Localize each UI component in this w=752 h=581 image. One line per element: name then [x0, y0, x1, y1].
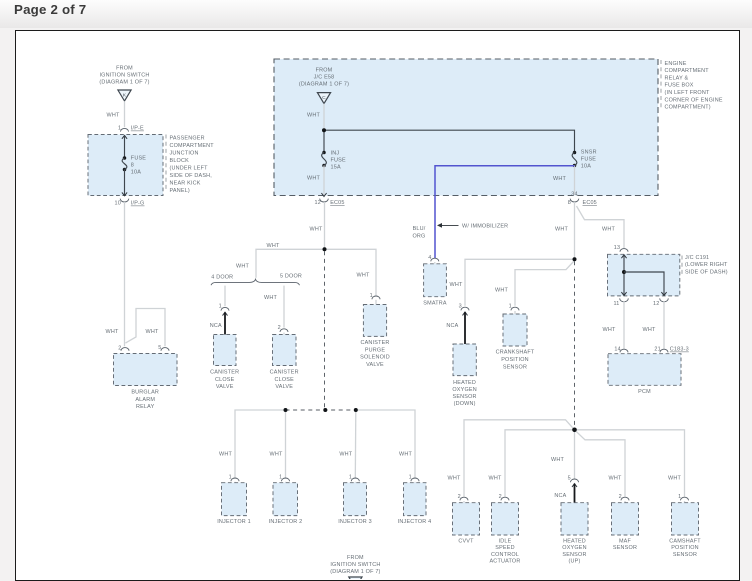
wire WHT EC05-8 down — [555, 202, 574, 259]
svg-text:13: 13 — [614, 245, 620, 251]
svg-text:8: 8 — [568, 200, 571, 206]
wire fuse to exit — [122, 170, 127, 196]
pin 2 MAF sensor — [619, 494, 629, 503]
svg-text:FUSE: FUSE — [331, 157, 346, 163]
svg-text:C: C — [322, 95, 326, 101]
wire SNSR fuse to EC05 pin 34 — [553, 166, 574, 195]
pin 21 PCM and connector C183-3 — [654, 347, 689, 353]
junction connector J/C C191 — [608, 254, 680, 296]
pin 1 canister purge — [370, 293, 380, 305]
source: from ignition switch (diagram 1 of 7) — [99, 65, 149, 85]
svg-text:SENSOR: SENSOR — [453, 394, 477, 400]
wire BLU/ORG SNSR fuse to SMATRA — [413, 166, 575, 258]
wire WHT I/P-G to burglar alarm relay pin 2 — [106, 202, 125, 346]
svg-text:VALVE: VALVE — [275, 384, 293, 390]
svg-text:POSITION: POSITION — [671, 545, 699, 551]
svg-text:WHT: WHT — [307, 175, 320, 181]
svg-text:K: K — [123, 92, 127, 98]
svg-text:INJECTOR 4: INJECTOR 4 — [398, 519, 432, 525]
svg-text:WHT: WHT — [399, 451, 412, 457]
svg-text:HEATED: HEATED — [453, 380, 476, 386]
pin 1 connector I/P-E — [118, 126, 144, 132]
svg-text:ACTUATOR: ACTUATOR — [489, 559, 520, 565]
svg-text:EC05: EC05 — [583, 200, 597, 206]
wire WHT to idle speed control actuator — [489, 430, 575, 497]
wire fuse feed — [124, 135, 126, 158]
svg-text:INJ: INJ — [331, 150, 340, 156]
svg-text:C183-3: C183-3 — [670, 347, 689, 353]
connector triangle bottom (clipped) — [349, 577, 362, 581]
wire WHT branch to pin 5 — [126, 309, 166, 347]
wire WHT to injector 3 — [339, 410, 355, 479]
svg-text:ENGINE: ENGINE — [665, 61, 687, 67]
svg-text:(UP): (UP) — [569, 559, 581, 565]
svg-text:I/P-G: I/P-G — [131, 201, 145, 207]
svg-text:POSITION: POSITION — [501, 357, 529, 363]
svg-text:WHT: WHT — [489, 475, 502, 481]
svg-text:SIDE OF DASH): SIDE OF DASH) — [685, 270, 728, 276]
svg-text:(UNDER LEFT: (UNDER LEFT — [170, 166, 209, 172]
heated oxygen sensor (down) — [452, 344, 476, 407]
svg-text:WHT: WHT — [609, 475, 622, 481]
svg-text:J/C C191: J/C C191 — [685, 255, 709, 261]
pin 1 canister close valve — [219, 304, 229, 311]
wire WHT EC05-12 down — [310, 202, 325, 249]
svg-text:(IN LEFT FRONT: (IN LEFT FRONT — [665, 90, 710, 96]
svg-text:COMPARTMENT: COMPARTMENT — [665, 68, 710, 74]
wire WHT to door-variant brace — [236, 243, 324, 278]
svg-text:BLU/: BLU/ — [413, 226, 426, 232]
svg-text:OXYGEN: OXYGEN — [452, 387, 476, 393]
engine compartment relay and fuse box — [274, 59, 658, 196]
svg-text:PASSENGER: PASSENGER — [170, 136, 205, 142]
svg-text:WHT: WHT — [270, 451, 283, 457]
entry arrow — [122, 135, 127, 138]
svg-text:CRANKSHAFT: CRANKSHAFT — [496, 350, 535, 356]
svg-text:FUSE: FUSE — [581, 157, 596, 163]
engine box caption — [661, 60, 723, 111]
svg-text:FROM: FROM — [316, 68, 333, 74]
canister close valve 1 — [210, 335, 239, 391]
pin 2 — [118, 345, 129, 351]
svg-text:RELAY: RELAY — [136, 404, 155, 410]
svg-text:CANISTER: CANISTER — [360, 340, 389, 346]
svg-text:WHT: WHT — [339, 451, 352, 457]
svg-text:CLOSE: CLOSE — [274, 377, 294, 383]
wire INJ fuse to EC05 pin 12 — [307, 166, 327, 198]
svg-text:ORG: ORG — [413, 233, 426, 239]
svg-text:NCA: NCA — [446, 323, 458, 329]
svg-text:WHT: WHT — [264, 295, 277, 301]
pin 1 injector 2 — [279, 474, 289, 482]
svg-text:(DIAGRAM 1 OF 7): (DIAGRAM 1 OF 7) — [330, 569, 380, 575]
svg-text:WHT: WHT — [555, 226, 568, 232]
svg-text:CANISTER: CANISTER — [270, 369, 299, 375]
svg-text:SENSOR: SENSOR — [562, 552, 586, 558]
svg-text:NCA: NCA — [554, 493, 566, 499]
svg-text:12: 12 — [315, 200, 321, 206]
svg-text:WHT: WHT — [603, 327, 616, 333]
pin 2 CVVT — [458, 494, 468, 503]
svg-text:SIDE OF DASH,: SIDE OF DASH, — [170, 173, 213, 179]
wire WHT to injector 2 — [270, 410, 286, 479]
passenger compartment junction block — [88, 135, 163, 196]
connector EC05 pin 34 / pin 8 — [568, 192, 597, 206]
fuse SNSR 10A — [572, 150, 597, 170]
injector 1 — [217, 483, 251, 525]
svg-text:WHT: WHT — [553, 176, 566, 182]
wire WHT to heated oxygen sensor up — [551, 430, 574, 479]
node sensor feed junction — [573, 257, 577, 261]
svg-text:NCA: NCA — [210, 323, 222, 329]
svg-text:11: 11 — [613, 301, 619, 307]
svg-text:NEAR KICK: NEAR KICK — [170, 181, 201, 187]
pin 14 PCM — [614, 347, 628, 353]
svg-text:VALVE: VALVE — [216, 384, 234, 390]
svg-text:JUNCTION: JUNCTION — [170, 151, 199, 157]
svg-text:CONTROL: CONTROL — [491, 552, 519, 558]
svg-text:10A: 10A — [581, 164, 591, 170]
SMATRA module — [423, 264, 447, 307]
injector 4 — [398, 483, 432, 525]
pin 1 injector 3 — [349, 474, 359, 482]
svg-text:HEATED: HEATED — [563, 538, 586, 544]
svg-text:WHT: WHT — [551, 457, 564, 463]
pin 11 — [613, 298, 628, 307]
svg-text:FUSE: FUSE — [131, 156, 146, 162]
source: from J/C E58 (diagram 1 of 7) — [299, 68, 349, 88]
fuse INJ 15A — [322, 150, 346, 170]
PCM — [608, 354, 681, 396]
svg-text:(LOWER RIGHT: (LOWER RIGHT — [685, 262, 728, 268]
camshaft position sensor — [669, 503, 701, 558]
svg-text:IGNITION SWITCH: IGNITION SWITCH — [330, 562, 380, 568]
wire WHT from triangle C — [307, 104, 324, 131]
svg-text:WHT: WHT — [448, 475, 461, 481]
pin 1 injector 1 — [229, 474, 239, 482]
node injector bus left — [284, 408, 288, 412]
svg-text:INJECTOR 3: INJECTOR 3 — [338, 519, 372, 525]
immobilizer arrow note — [437, 223, 508, 229]
wire WHT to heated oxygen sensor down — [450, 259, 575, 306]
svg-text:WHT: WHT — [668, 475, 681, 481]
svg-text:CLOSE: CLOSE — [215, 377, 235, 383]
svg-text:FROM: FROM — [347, 555, 364, 561]
svg-text:RELAY &: RELAY & — [665, 75, 689, 81]
svg-text:PCM: PCM — [638, 389, 651, 395]
idle speed control actuator — [489, 503, 520, 565]
svg-text:34: 34 — [571, 192, 577, 198]
wire WHT to injector 1 — [219, 410, 285, 479]
pin 1 injector 4 — [409, 474, 419, 482]
junction block caption — [166, 135, 214, 195]
svg-text:VALVE: VALVE — [366, 362, 384, 368]
svg-text:PURGE: PURGE — [365, 347, 386, 353]
svg-text:W/ IMMOBILIZER: W/ IMMOBILIZER — [462, 223, 508, 229]
node injector bus center — [323, 408, 327, 412]
svg-text:10A: 10A — [131, 170, 141, 176]
svg-text:15A: 15A — [331, 164, 341, 170]
svg-text:WHT: WHT — [107, 112, 120, 118]
svg-text:4 DOOR: 4 DOOR — [211, 274, 233, 280]
svg-text:SOLENOID: SOLENOID — [360, 355, 390, 361]
pin 3 heated oxygen sensor down — [459, 303, 469, 310]
svg-text:5: 5 — [568, 475, 571, 481]
svg-text:WHT: WHT — [357, 273, 370, 279]
source: from ignition switch (bottom) — [330, 555, 380, 575]
svg-text:IDLE: IDLE — [499, 538, 512, 544]
pin 2 canister close valve 2 — [278, 325, 288, 334]
svg-text:CAMSHAFT: CAMSHAFT — [669, 538, 701, 544]
connector triangle K — [118, 90, 131, 101]
svg-text:ALARM: ALARM — [135, 397, 155, 403]
pin 1 crankshaft position sensor — [509, 303, 519, 314]
svg-text:WHT: WHT — [450, 282, 463, 288]
pin 2 idle speed control actuator — [499, 494, 509, 503]
node canister junction — [323, 247, 327, 251]
svg-text:(DIAGRAM 1 OF 7): (DIAGRAM 1 OF 7) — [99, 79, 149, 85]
pin 4 SMATRA — [428, 255, 439, 264]
svg-text:WHT: WHT — [219, 451, 232, 457]
canister purge solenoid valve — [360, 305, 390, 369]
svg-text:IGNITION SWITCH: IGNITION SWITCH — [99, 72, 149, 78]
pin 10 connector I/P-G — [115, 199, 145, 207]
svg-text:CVVT: CVVT — [458, 538, 474, 544]
wire NCA heated oxygen sensor down — [446, 312, 467, 344]
connector EC05 pin 12 — [315, 199, 345, 206]
pin 13 J/C C191 — [614, 245, 628, 252]
wire WHT to injector 4 — [356, 410, 415, 479]
svg-text:SENSOR: SENSOR — [503, 365, 527, 371]
pin 12 — [653, 298, 668, 307]
node fuse feed junction — [322, 128, 326, 132]
injector 3 — [338, 483, 372, 525]
wire WHT to CVVT — [448, 420, 575, 497]
dashed wire canister junction to injector bus — [324, 251, 326, 410]
svg-text:10: 10 — [115, 201, 121, 207]
svg-text:WHT: WHT — [643, 327, 656, 333]
svg-text:EC05: EC05 — [330, 200, 344, 206]
pin 1 camshaft position sensor — [678, 494, 688, 503]
burglar alarm relay — [114, 354, 178, 411]
node lower sensor junction — [572, 428, 577, 433]
svg-text:BURGLAR: BURGLAR — [131, 389, 159, 395]
svg-text:SPEED: SPEED — [495, 545, 514, 551]
wire NCA canister close valve 1 — [210, 312, 228, 334]
svg-text:PANEL): PANEL) — [170, 188, 190, 194]
wire WHT pin 11 to PCM 14 — [603, 301, 624, 349]
svg-text:INJECTOR 1: INJECTOR 1 — [217, 519, 251, 525]
injector 2 — [269, 483, 303, 525]
svg-text:FUSE BOX: FUSE BOX — [665, 83, 694, 89]
crankshaft position sensor — [496, 314, 535, 371]
svg-text:WHT: WHT — [106, 329, 119, 335]
connector triangle C — [317, 93, 330, 104]
dashed wire sensor junction to lower junction — [574, 261, 576, 428]
J/C C191 internal wires — [621, 255, 666, 296]
fuse 8 10A — [122, 156, 146, 176]
svg-text:WHT: WHT — [602, 226, 615, 232]
svg-text:WHT: WHT — [307, 112, 320, 118]
svg-text:OXYGEN: OXYGEN — [562, 545, 586, 551]
svg-text:WHT: WHT — [236, 264, 249, 270]
svg-text:5 DOOR: 5 DOOR — [280, 274, 302, 280]
svg-text:CANISTER: CANISTER — [210, 369, 239, 375]
J/C C191 caption — [682, 255, 728, 276]
wire WHT to MAF sensor — [575, 430, 626, 497]
wire WHT pin 12 to PCM 21 — [643, 301, 664, 349]
brace 4 door / 5 door — [211, 274, 302, 286]
pin 5 heated oxygen sensor up — [568, 475, 579, 482]
svg-text:(DIAGRAM 1 OF 7): (DIAGRAM 1 OF 7) — [299, 82, 349, 88]
svg-text:CORNER OF ENGINE: CORNER OF ENGINE — [665, 97, 723, 103]
svg-text:SENSOR: SENSOR — [673, 552, 697, 558]
wire to SNSR fuse — [324, 130, 575, 152]
svg-text:12: 12 — [653, 301, 659, 307]
svg-text:SENSOR: SENSOR — [613, 545, 637, 551]
svg-text:I/P-E: I/P-E — [131, 126, 144, 132]
svg-text:MAF: MAF — [619, 538, 632, 544]
heated oxygen sensor (up) — [561, 503, 588, 565]
pin 5 — [158, 345, 169, 351]
wire 4-door to canister close valve 1 — [224, 286, 226, 307]
CVVT — [453, 503, 480, 545]
wire NCA heated oxygen sensor up — [554, 484, 577, 503]
wire WHT ignition switch to I/P-E — [107, 101, 125, 127]
svg-text:WHT: WHT — [310, 226, 323, 232]
dashed injector bus — [286, 409, 356, 411]
svg-text:SMATRA: SMATRA — [423, 300, 447, 306]
svg-text:FROM: FROM — [116, 65, 133, 71]
svg-text:WHT: WHT — [267, 243, 280, 249]
svg-text:COMPARTMENT): COMPARTMENT) — [665, 105, 711, 111]
canister close valve 2 — [270, 335, 299, 391]
wire WHT to canister purge solenoid valve — [325, 249, 377, 295]
wire WHT to crankshaft position sensor — [495, 261, 574, 306]
wire WHT to camshaft position sensor — [575, 430, 685, 497]
svg-text:WHT: WHT — [146, 329, 159, 335]
svg-text:BLOCK: BLOCK — [170, 158, 190, 164]
svg-text:SNSR: SNSR — [581, 150, 597, 156]
wire WHT branch to J/C C191 pin 13 — [577, 206, 625, 249]
MAF sensor — [612, 503, 639, 551]
node injector bus right — [354, 408, 358, 412]
svg-text:WHT: WHT — [495, 287, 508, 293]
svg-text:8: 8 — [131, 163, 134, 169]
wire WHT 5-door to canister close valve 2 — [264, 286, 284, 328]
wire to INJ fuse — [323, 130, 325, 152]
svg-text:(DOWN): (DOWN) — [454, 401, 476, 407]
svg-text:INJECTOR 2: INJECTOR 2 — [269, 519, 303, 525]
svg-text:J/C E58: J/C E58 — [314, 75, 335, 81]
svg-text:COMPARTMENT: COMPARTMENT — [170, 143, 215, 149]
